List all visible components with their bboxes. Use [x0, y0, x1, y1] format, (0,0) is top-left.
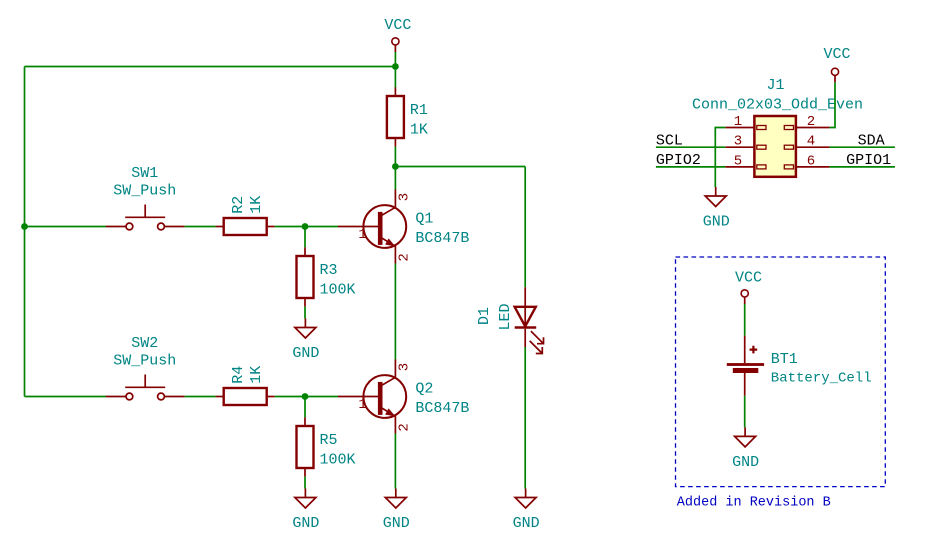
- svg-text:2: 2: [396, 253, 412, 261]
- wire SW1 to R2: [185, 226, 216, 228]
- svg-text:R4: R4: [230, 366, 247, 384]
- wire SCL: [656, 146, 725, 148]
- svg-text:100K: 100K: [320, 282, 356, 299]
- wire node to R5: [304, 397, 306, 418]
- svg-text:R1: R1: [410, 102, 428, 119]
- svg-text:SDA: SDA: [858, 133, 885, 150]
- wire R4 to node: [275, 396, 305, 398]
- resistor R2 1K: [216, 196, 275, 235]
- wire LED branch vertical: [524, 167, 526, 288]
- svg-text:1K: 1K: [248, 196, 265, 214]
- svg-text:SW_Push: SW_Push: [113, 183, 176, 200]
- svg-text:BC847B: BC847B: [415, 230, 469, 247]
- wire VCC stub to top rail: [394, 52, 396, 67]
- svg-text:SW1: SW1: [131, 165, 158, 182]
- wire left bus to SW2: [25, 396, 107, 398]
- resistor R5 100K: [297, 417, 356, 476]
- wire SDA: [830, 146, 895, 148]
- wire rail to R1: [394, 67, 396, 88]
- ground LED: [513, 489, 540, 533]
- ground battery: [732, 427, 759, 471]
- svg-text:GND: GND: [703, 214, 730, 231]
- ground Q2: [383, 489, 410, 533]
- wire battery VCC: [744, 304, 746, 336]
- ground R3: [292, 319, 319, 363]
- svg-text:GND: GND: [732, 454, 759, 471]
- svg-text:5: 5: [734, 153, 742, 169]
- svg-text:SW2: SW2: [131, 335, 158, 352]
- svg-text:Battery_Cell: Battery_Cell: [771, 371, 872, 387]
- wire R1 to collector node: [394, 147, 396, 167]
- svg-text:3: 3: [734, 134, 742, 150]
- junction node R1 Q1 LED: [392, 163, 399, 170]
- svg-text:Conn_02x03_Odd_Even: Conn_02x03_Odd_Even: [692, 97, 863, 114]
- svg-text:1K: 1K: [410, 122, 428, 139]
- power flag VCC main: [384, 17, 411, 52]
- resistor R3 100K: [297, 247, 356, 306]
- svg-text:Added in Revision B: Added in Revision B: [677, 495, 831, 510]
- svg-text:BC847B: BC847B: [415, 400, 469, 417]
- svg-text:1K: 1K: [248, 366, 265, 384]
- wire to SW1: [25, 226, 107, 228]
- svg-text:R2: R2: [230, 196, 247, 214]
- wire GPIO2: [656, 166, 725, 168]
- svg-text:GPIO2: GPIO2: [656, 152, 701, 169]
- svg-text:Q2: Q2: [415, 380, 433, 397]
- ground R5: [292, 489, 319, 533]
- svg-text:1: 1: [358, 227, 366, 243]
- LED D1: [476, 287, 544, 353]
- svg-text:1: 1: [358, 397, 366, 413]
- svg-text:GPIO1: GPIO1: [846, 152, 891, 169]
- svg-text:SCL: SCL: [656, 133, 683, 150]
- wire node to Q2 base: [305, 396, 338, 398]
- junction node R4 R5 Q2: [302, 393, 309, 400]
- wire GPIO1: [830, 166, 895, 168]
- resistor R4 1K: [216, 366, 275, 405]
- wire LED to GND: [524, 347, 526, 489]
- svg-text:3: 3: [396, 363, 412, 371]
- junction left bus SW1 row: [21, 223, 28, 230]
- power flag VCC battery: [735, 270, 762, 305]
- wire R5 to GND: [304, 477, 306, 489]
- wire J1 pin1 to GND: [715, 128, 725, 188]
- svg-text:6: 6: [807, 153, 815, 169]
- svg-text:R3: R3: [320, 262, 338, 279]
- wire collector node to LED branch: [395, 166, 525, 168]
- svg-text:2: 2: [396, 423, 412, 431]
- svg-text:J1: J1: [766, 77, 784, 94]
- svg-text:BT1: BT1: [771, 351, 798, 368]
- wire left vertical bus: [24, 67, 26, 397]
- svg-text:VCC: VCC: [384, 17, 411, 34]
- wire battery to GND: [744, 396, 746, 428]
- connector J1 Conn_02x03_Odd_Even: [692, 77, 863, 177]
- transistor Q1 BC847B: [338, 190, 469, 264]
- wire node to Q1 base: [305, 226, 338, 228]
- wire Q1 emitter to Q2 collector: [394, 264, 396, 360]
- svg-text:3: 3: [396, 193, 412, 201]
- svg-text:GND: GND: [383, 515, 410, 532]
- transistor Q2 BC847B: [338, 360, 469, 434]
- junction node R2 R3 Q1: [302, 223, 309, 230]
- svg-text:4: 4: [807, 134, 815, 150]
- junction node VCC rail: [392, 63, 399, 70]
- svg-text:GND: GND: [513, 515, 540, 532]
- svg-text:2: 2: [807, 114, 815, 130]
- svg-text:R5: R5: [320, 432, 338, 449]
- wire SW2 to R4: [185, 396, 216, 398]
- power flag VCC J1: [823, 46, 850, 82]
- svg-text:VCC: VCC: [823, 46, 850, 63]
- svg-text:GND: GND: [292, 345, 319, 362]
- wire R2 to node: [275, 226, 305, 228]
- svg-text:GND: GND: [292, 515, 319, 532]
- note dashed revision box: [676, 257, 886, 487]
- wire Q1 collector: [394, 167, 396, 190]
- switch SW2: [106, 335, 185, 400]
- battery BT1 Battery_Cell: [727, 336, 872, 396]
- svg-text:D1: D1: [476, 307, 493, 325]
- ground J1: [703, 187, 730, 231]
- svg-text:100K: 100K: [320, 452, 356, 469]
- wire J1 VCC to pin 2: [830, 82, 835, 127]
- wire node to R3: [304, 227, 306, 248]
- switch SW1: [106, 165, 185, 230]
- svg-text:SW_Push: SW_Push: [113, 353, 176, 370]
- resistor R1 1K: [387, 87, 428, 146]
- wire R3 to GND: [304, 307, 306, 319]
- wire Q2 emitter to GND: [394, 434, 396, 489]
- svg-text:VCC: VCC: [735, 270, 762, 287]
- svg-text:LED: LED: [497, 303, 514, 330]
- svg-text:1: 1: [734, 114, 742, 130]
- svg-text:Q1: Q1: [415, 210, 433, 227]
- wire top horizontal rail: [25, 66, 396, 68]
